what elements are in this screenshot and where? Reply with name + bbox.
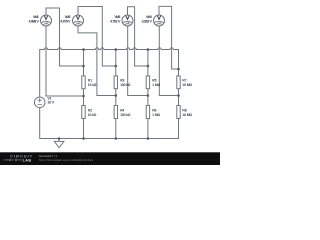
wire VM4 top to R7 top: [159, 6, 179, 69]
resistor R7: [177, 76, 180, 89]
wire R1 column mid: [83, 50, 85, 139]
node VM3top-R5: [147, 65, 150, 68]
svg-text:R8: R8: [182, 108, 186, 112]
svg-text:http://circuitlab.com/c4dm4bsh: http://circuitlab.com/c4dm4bshvhc2: [39, 158, 94, 162]
svg-text:R5: R5: [152, 78, 156, 82]
svg-text:4.975 V: 4.975 V: [60, 20, 71, 24]
node mid-R5R6: [147, 94, 150, 97]
svg-text:100 kΩ: 100 kΩ: [120, 113, 131, 117]
labels: [29, 15, 193, 117]
svg-text:R4: R4: [120, 108, 124, 112]
voltage source V1: [34, 97, 45, 108]
node rail-R1: [82, 48, 85, 51]
svg-text:10 MΩ: 10 MΩ: [182, 83, 192, 87]
footer bar: [0, 152, 220, 165]
svg-text:VM3: VM3: [115, 15, 121, 19]
resistor R5: [146, 76, 149, 89]
svg-text:R2: R2: [88, 108, 92, 112]
wire VM2 bottom to R3/R4 midpoint: [78, 26, 116, 96]
resistor R1: [82, 76, 85, 89]
node VM1top-R1: [82, 65, 85, 68]
wire R3 column: [115, 50, 117, 139]
svg-text:10 V: 10 V: [48, 101, 55, 105]
node mid-R7R8: [177, 94, 180, 97]
wire VM4 bottom to R7/R8 midpoint: [159, 26, 178, 96]
svg-text:100 kΩ: 100 kΩ: [120, 83, 131, 87]
wire R5 column: [147, 50, 149, 139]
svg-text:R3: R3: [120, 78, 124, 82]
svg-text:4.762 V: 4.762 V: [110, 20, 121, 24]
wire bottom ground rail: [40, 108, 179, 139]
voltmeter VM2: [73, 15, 84, 26]
svg-text:1 MΩ: 1 MΩ: [152, 113, 160, 117]
svg-text:3.333 V: 3.333 V: [142, 20, 153, 24]
svg-text:VM4: VM4: [146, 15, 152, 19]
resistor R6: [146, 106, 149, 119]
logo wire squiggle: [4, 159, 22, 161]
node rail-R3: [115, 48, 118, 51]
svg-text:R7: R7: [182, 78, 186, 82]
resistor R4: [114, 106, 117, 119]
svg-text:R1: R1: [88, 78, 92, 82]
node VM4top-R7: [177, 68, 180, 71]
wire R7/R8 column: [178, 89, 180, 106]
node gnd-R4: [115, 137, 118, 140]
voltmeter VM3: [122, 15, 133, 26]
wire VM1 bottom to R1/R2 midpoint: [46, 26, 84, 96]
node gnd-stem: [58, 137, 61, 140]
node mid-R1R2: [82, 95, 85, 98]
ground: [54, 139, 64, 148]
junction dots: [58, 48, 180, 140]
svg-text:10 MΩ: 10 MΩ: [182, 113, 192, 117]
wire VM3 bottom to R5/R6 midpoint: [128, 26, 148, 96]
wire VM1 top to R1 top: [46, 8, 84, 66]
wire top rail with hops: [40, 48, 179, 97]
node rail-R5: [147, 48, 150, 51]
svg-text:VM2: VM2: [65, 15, 71, 19]
wire VM2 top to R3 top: [78, 7, 116, 67]
resistor R3: [114, 76, 117, 89]
svg-text:1 MΩ: 1 MΩ: [152, 83, 160, 87]
svg-text:4.998 V: 4.998 V: [29, 20, 40, 24]
voltmeter VM4: [154, 15, 165, 26]
svg-text:10 kΩ: 10 kΩ: [88, 83, 97, 87]
svg-text:R6: R6: [152, 108, 156, 112]
svg-text:10 kΩ: 10 kΩ: [88, 113, 97, 117]
voltmeter VM1: [41, 15, 52, 26]
wire VM3 top to R5 top: [128, 7, 148, 66]
resistor R8: [177, 106, 180, 119]
node gnd-R6: [147, 137, 150, 140]
node VM2top-R3: [115, 65, 118, 68]
node mid-R3R4: [115, 94, 118, 97]
resistor R2: [82, 106, 85, 119]
node gnd-R2: [82, 137, 85, 140]
svg-text:LAB: LAB: [23, 158, 32, 162]
svg-text:VM1: VM1: [33, 15, 39, 19]
